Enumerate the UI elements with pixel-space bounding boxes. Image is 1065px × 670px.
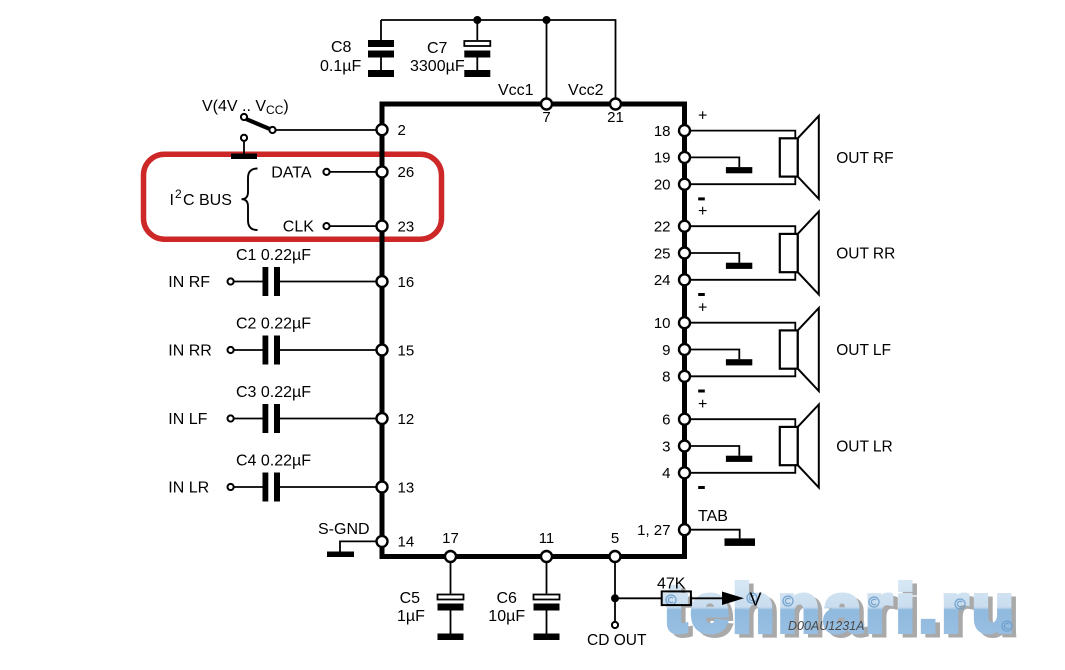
- svg-text:16: 16: [398, 274, 415, 291]
- svg-text:20: 20: [654, 177, 671, 194]
- svg-text:+: +: [698, 396, 707, 413]
- svg-text:2: 2: [175, 187, 182, 201]
- svg-text:5: 5: [611, 530, 619, 547]
- svg-text:17: 17: [442, 530, 459, 547]
- svg-text:OUT LF: OUT LF: [836, 342, 891, 359]
- svg-text:OUT RF: OUT RF: [836, 150, 893, 167]
- svg-text:C2 0.22µF: C2 0.22µF: [236, 316, 311, 333]
- svg-text:C4 0.22µF: C4 0.22µF: [236, 453, 311, 470]
- svg-text:IN LR: IN LR: [168, 480, 209, 497]
- svg-text:C1 0.22µF: C1 0.22µF: [236, 247, 311, 264]
- svg-text:14: 14: [398, 534, 415, 551]
- svg-text:4: 4: [662, 465, 670, 482]
- svg-text:V: V: [750, 590, 762, 610]
- svg-text:47K: 47K: [657, 576, 686, 593]
- svg-text:3300µF: 3300µF: [410, 58, 465, 75]
- svg-text:10: 10: [654, 315, 671, 332]
- svg-text:CD OUT: CD OUT: [587, 632, 647, 649]
- svg-text:IN LF: IN LF: [168, 411, 207, 428]
- svg-text:IN RR: IN RR: [168, 343, 212, 360]
- svg-text:D00AU1231A: D00AU1231A: [788, 619, 864, 633]
- svg-text:3: 3: [662, 438, 670, 455]
- svg-text:+: +: [698, 108, 707, 125]
- svg-text:8: 8: [662, 369, 670, 386]
- svg-text:22: 22: [654, 219, 671, 236]
- svg-text:C7: C7: [427, 40, 448, 57]
- svg-text:7: 7: [542, 109, 550, 126]
- svg-text:1µF: 1µF: [397, 608, 425, 625]
- svg-text:CLK: CLK: [283, 219, 314, 236]
- svg-text:IN RF: IN RF: [168, 274, 210, 291]
- svg-text:I: I: [170, 192, 174, 209]
- svg-text:OUT RR: OUT RR: [836, 246, 895, 263]
- svg-text:19: 19: [654, 150, 671, 167]
- svg-text:6: 6: [662, 412, 670, 429]
- svg-text:DATA: DATA: [271, 165, 312, 182]
- svg-text:C5: C5: [400, 590, 421, 607]
- svg-text:Vcc1: Vcc1: [498, 82, 534, 99]
- svg-text:23: 23: [398, 218, 415, 235]
- svg-text:+: +: [698, 300, 707, 317]
- svg-text:11: 11: [539, 530, 555, 547]
- svg-text:12: 12: [398, 411, 415, 428]
- svg-text:18: 18: [654, 123, 671, 140]
- svg-text:TAB: TAB: [698, 508, 728, 525]
- svg-text:0.1µF: 0.1µF: [320, 58, 361, 75]
- svg-text:10µF: 10µF: [488, 608, 525, 625]
- svg-text:tehnari.ru: tehnari.ru: [664, 571, 1018, 647]
- svg-text:26: 26: [398, 164, 415, 181]
- svg-text:C BUS: C BUS: [183, 192, 232, 209]
- svg-text:+: +: [698, 203, 707, 220]
- svg-text:OUT LR: OUT LR: [836, 439, 893, 456]
- svg-text:C3 0.22µF: C3 0.22µF: [236, 384, 311, 401]
- svg-text:S-GND: S-GND: [318, 521, 370, 538]
- svg-text:2: 2: [398, 122, 406, 139]
- svg-text:1, 27: 1, 27: [637, 522, 670, 539]
- svg-text:15: 15: [398, 342, 415, 359]
- svg-text:9: 9: [662, 342, 670, 359]
- svg-text:21: 21: [607, 109, 624, 126]
- svg-text:13: 13: [398, 479, 415, 496]
- svg-text:C8: C8: [331, 39, 352, 56]
- svg-text:24: 24: [654, 272, 671, 289]
- svg-text:C6: C6: [497, 590, 518, 607]
- svg-text:25: 25: [654, 245, 671, 262]
- svg-text:Vcc2: Vcc2: [568, 82, 604, 99]
